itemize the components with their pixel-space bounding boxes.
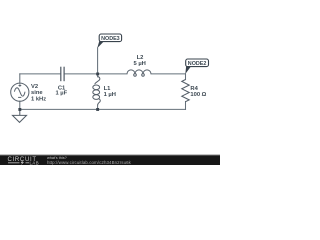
svg-text:R4: R4	[190, 86, 198, 92]
wire R4 bottom lead	[185, 102, 187, 110]
inductor L2	[127, 70, 151, 76]
label L2 value	[134, 55, 146, 67]
wire top rail right segment	[151, 73, 186, 75]
watermark bar	[0, 155, 220, 165]
wire R4 top lead	[185, 74, 187, 80]
node flag NODE3	[97, 34, 121, 48]
wire bottom rail	[20, 108, 186, 110]
svg-text:NODE2: NODE2	[188, 61, 207, 67]
ground	[13, 109, 27, 122]
wire source bottom to bottom rail	[19, 101, 21, 109]
wire top rail middle segment	[64, 73, 127, 75]
voltage source V2	[11, 83, 29, 101]
junction dot at top rail / L1	[96, 73, 99, 76]
svg-text:1 µF: 1 µF	[55, 90, 67, 96]
resistor R4	[182, 80, 189, 102]
wire left vertical from source to rail	[19, 74, 21, 83]
wire top rail left segment	[20, 73, 60, 75]
svg-text:100 Ω: 100 Ω	[190, 92, 206, 98]
svg-text:L1: L1	[104, 86, 112, 92]
svg-text:5 µH: 5 µH	[134, 61, 146, 67]
wire L1 bottom lead	[97, 105, 99, 109]
svg-text:1 kHz: 1 kHz	[31, 97, 46, 103]
junction dot at source bottom	[18, 108, 21, 111]
inductor L1	[93, 77, 100, 106]
watermark link text	[47, 156, 132, 165]
svg-text:V2: V2	[31, 84, 38, 90]
label V2 value	[31, 84, 46, 103]
watermark CircuitLab logo	[8, 157, 40, 166]
label R4 value	[190, 86, 206, 98]
label C1 value	[55, 85, 67, 96]
svg-text:http://www.circuitlab.com/c2h3: http://www.circuitlab.com/c2h34Bn2rsu6k	[47, 160, 132, 165]
label L1 value	[104, 86, 116, 98]
svg-text:1 µH: 1 µH	[104, 92, 116, 98]
capacitor C1	[61, 67, 64, 82]
wire L1 top lead	[97, 74, 99, 77]
svg-text:LAB: LAB	[30, 161, 40, 165]
wire NODE3 stub down to rail	[97, 48, 99, 74]
svg-text:sine: sine	[31, 90, 43, 96]
junction dot at bottom rail / L1	[96, 108, 99, 111]
node flag NODE2	[185, 59, 208, 74]
svg-text:NODE3: NODE3	[101, 36, 120, 42]
